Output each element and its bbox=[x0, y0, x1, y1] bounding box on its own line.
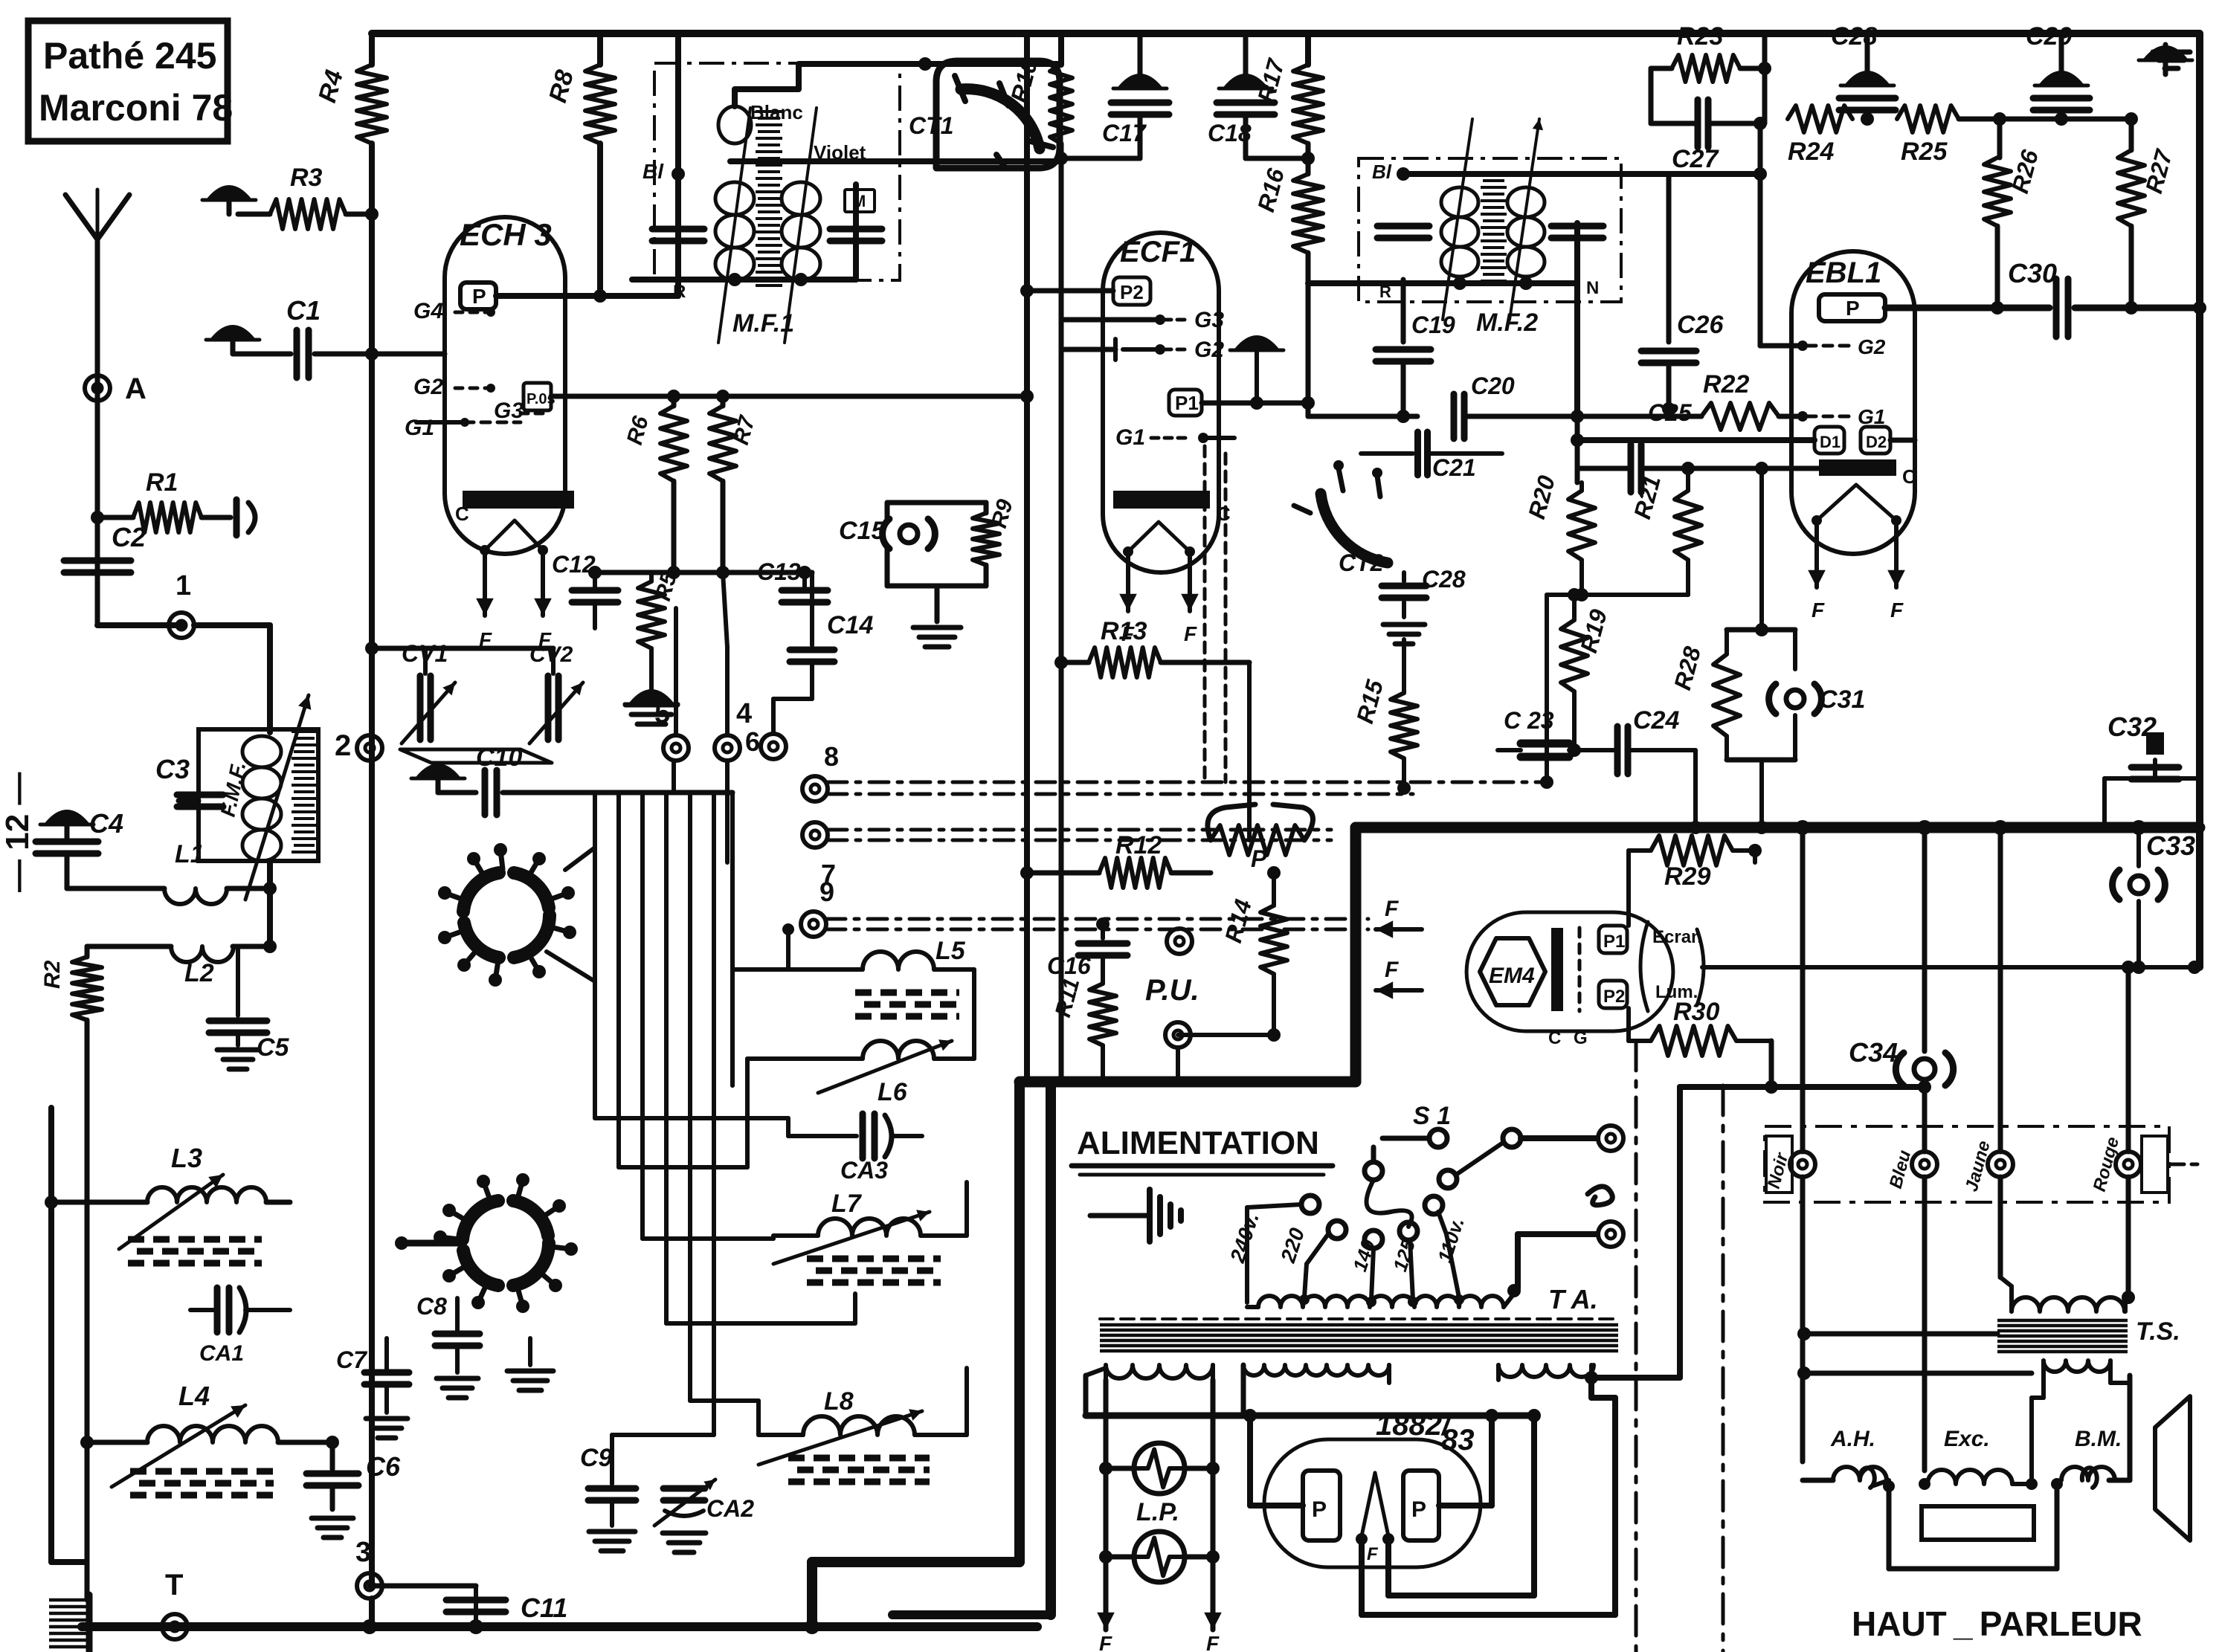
resistor R9 bbox=[973, 513, 999, 565]
Exc magnet bbox=[1922, 1506, 2034, 1540]
trimmer CT1 box bbox=[936, 61, 1060, 168]
wire L3 right bbox=[266, 1200, 290, 1205]
wire feedback vertical bbox=[1762, 33, 1768, 123]
svg-text:F: F bbox=[1099, 1632, 1112, 1652]
svg-text:L6: L6 bbox=[877, 1078, 908, 1106]
tap risers bbox=[1245, 1207, 1249, 1297]
terminal 2 bbox=[357, 735, 382, 761]
capacitor C29 bbox=[2059, 33, 2064, 71]
EM4 hexagon bbox=[1480, 938, 1545, 1005]
capacitor to chassis after R1 bbox=[234, 500, 240, 535]
wire HT row bbox=[1086, 1413, 1534, 1419]
EM4 F arrows bbox=[1376, 927, 1422, 932]
svg-text:F: F bbox=[1206, 1632, 1220, 1652]
resistor R6 bbox=[667, 390, 680, 403]
capacitor+chassis left of R3 bbox=[208, 187, 250, 199]
wire P2 to center bbox=[1027, 288, 1113, 294]
fuse squiggle bbox=[1588, 1187, 1612, 1205]
svg-text:Blanc: Blanc bbox=[750, 101, 803, 123]
resistor R17 bbox=[1305, 33, 1311, 65]
resistor R8 bbox=[597, 33, 603, 65]
capacitor C23 bbox=[1498, 748, 1521, 752]
title box Pathé 245 / Marconi 78 bbox=[28, 21, 228, 141]
svg-text:R25: R25 bbox=[1901, 138, 1948, 166]
resistor R21 bbox=[1686, 468, 1690, 491]
svg-text:C32: C32 bbox=[2107, 712, 2157, 742]
svg-text:C14: C14 bbox=[827, 611, 873, 639]
coil L4 bbox=[147, 1426, 278, 1442]
coil L1 bbox=[67, 886, 164, 891]
svg-text:C27: C27 bbox=[1672, 145, 1719, 173]
svg-text:P: P bbox=[1411, 1497, 1426, 1522]
AF line G1 bbox=[1308, 414, 1417, 419]
capacitor C4 umbrella bbox=[46, 811, 88, 824]
svg-text:C: C bbox=[1548, 1028, 1561, 1048]
svg-text:L8: L8 bbox=[824, 1387, 854, 1416]
resistor R15 bbox=[1402, 639, 1406, 693]
svg-text:C: C bbox=[1217, 503, 1231, 525]
svg-text:C31: C31 bbox=[1819, 685, 1865, 714]
coil L8 bbox=[759, 1433, 803, 1437]
capacitor C14 bbox=[810, 572, 814, 645]
MF1 secondary terminal M bbox=[853, 184, 859, 280]
svg-text:R23: R23 bbox=[1677, 22, 1723, 51]
plate box P1 ECF1 bbox=[1169, 390, 1202, 416]
C32 frame bbox=[2102, 778, 2107, 827]
capacitor C9 bbox=[610, 1435, 614, 1484]
wire Violet line bbox=[730, 158, 1056, 164]
svg-text:HAUT _ PARLEUR: HAUT _ PARLEUR bbox=[1852, 1604, 2142, 1643]
svg-text:C33: C33 bbox=[2146, 830, 2195, 861]
svg-text:G4: G4 bbox=[413, 299, 443, 323]
wire Bleu vertical bbox=[1922, 827, 1928, 1051]
svg-text:P: P bbox=[472, 285, 486, 308]
svg-text:EBL1: EBL1 bbox=[1806, 256, 1881, 289]
M.F.1 shield box bbox=[654, 63, 900, 280]
capacitor C24 bbox=[1574, 748, 1614, 752]
capacitor C12 bbox=[593, 572, 597, 587]
svg-text:Pathé 245: Pathé 245 bbox=[43, 35, 216, 77]
wire bundle verticals bbox=[593, 793, 597, 1118]
svg-text:C1: C1 bbox=[286, 295, 321, 326]
switch S1 bbox=[1429, 1129, 1447, 1147]
wire right bus vertical bbox=[2196, 33, 2203, 967]
L7 core block bbox=[807, 1259, 941, 1282]
T.S. primary bbox=[2012, 1297, 2125, 1311]
svg-text:G1: G1 bbox=[1858, 405, 1885, 428]
wire D2 to edge bbox=[1890, 438, 1915, 443]
capacitor C31 bbox=[1786, 690, 1804, 708]
trimmer CT1 arc bbox=[961, 89, 1040, 149]
wire FMF bottom bbox=[267, 861, 273, 946]
svg-text:F: F bbox=[1890, 598, 1904, 622]
svg-text:P: P bbox=[1312, 1497, 1327, 1522]
capacitor C4 bbox=[36, 839, 98, 845]
wire heavy vertical pair ALIMENTATION bbox=[1014, 1082, 1025, 1562]
svg-text:P.U.: P.U. bbox=[1145, 974, 1199, 1007]
MF2 core bbox=[1481, 174, 1507, 281]
1882 filament bbox=[1362, 1473, 1375, 1536]
terminal A bbox=[85, 375, 110, 401]
wire D1 D2 row bbox=[1577, 437, 1814, 443]
cathode bar ECH3 bbox=[463, 491, 574, 509]
MF1 tuning arrows bbox=[718, 108, 750, 343]
capacitor C6 bbox=[330, 1442, 335, 1469]
resistor R12 bbox=[1027, 871, 1099, 876]
wire MF2 top bbox=[1403, 171, 1760, 177]
1882 P box left bbox=[1303, 1471, 1340, 1540]
wire top HT bus bbox=[372, 30, 2200, 37]
speaker cone bbox=[2155, 1396, 2190, 1540]
capacitor C22 bbox=[1402, 602, 1406, 617]
svg-text:C24: C24 bbox=[1633, 706, 1679, 735]
L4 core block bbox=[130, 1471, 274, 1495]
terminals 5 and 4 bbox=[663, 735, 689, 761]
svg-text:CA1: CA1 bbox=[199, 1341, 244, 1366]
capacitor+chassis left of C1 bbox=[212, 326, 254, 339]
TA primary winding bbox=[1245, 1297, 1249, 1303]
trimmer CA1 bbox=[190, 1308, 216, 1312]
svg-text:L3: L3 bbox=[171, 1143, 202, 1173]
svg-text:C5: C5 bbox=[257, 1033, 290, 1062]
svg-text:C4: C4 bbox=[89, 808, 123, 839]
svg-text:R3: R3 bbox=[290, 164, 323, 192]
coil B.M. bbox=[2061, 1467, 2115, 1480]
resistor R23 bbox=[1651, 66, 1672, 71]
antenna bbox=[95, 239, 100, 590]
grid G3 ECF1 bbox=[1061, 317, 1160, 323]
svg-text:C18: C18 bbox=[1208, 120, 1252, 146]
svg-text:L2: L2 bbox=[184, 959, 214, 987]
svg-text:C16: C16 bbox=[1047, 952, 1091, 979]
TA rect-fil winding bbox=[1498, 1365, 1594, 1377]
heater pentagon EBL1 bbox=[1817, 485, 1896, 520]
TA core dashed top bbox=[1100, 1317, 1618, 1320]
wire terminal1 to FMF bbox=[194, 622, 270, 628]
F.M.F coil petals bbox=[242, 736, 281, 767]
separator dashdot 1 bbox=[1635, 1041, 1638, 1652]
wire x2259 to TA bbox=[1677, 1087, 1683, 1378]
capacitor C13 bbox=[802, 572, 807, 587]
terminal 7 bbox=[802, 822, 828, 848]
M.F.2 shield box bbox=[1359, 158, 1621, 302]
T.S. secondary bbox=[2044, 1361, 2110, 1372]
svg-text:CA3: CA3 bbox=[840, 1157, 888, 1184]
svg-text:T: T bbox=[165, 1569, 183, 1601]
rotary switch S-B feed bbox=[402, 1240, 463, 1247]
cathode bar ECF1 bbox=[1113, 491, 1210, 509]
svg-text:C34: C34 bbox=[1849, 1037, 1898, 1068]
wire lamp vertical left bbox=[1104, 1380, 1109, 1619]
svg-text:5: 5 bbox=[654, 698, 670, 729]
coil L5 bbox=[786, 929, 790, 969]
ground under R5 bbox=[631, 691, 672, 703]
heater pentagon ECF1 bbox=[1128, 522, 1190, 552]
svg-text:T.S.: T.S. bbox=[2136, 1317, 2180, 1346]
resistor R11 bbox=[1089, 984, 1116, 1045]
wire heavy B+ bus y1113 bbox=[1356, 822, 2200, 833]
capacitor C32 bbox=[2153, 760, 2157, 778]
svg-text:Exc.: Exc. bbox=[1944, 1427, 1990, 1451]
wire P1 to right bbox=[1202, 401, 1308, 406]
MF1 secondary petals bbox=[782, 182, 820, 215]
svg-text:EM4: EM4 bbox=[1489, 964, 1535, 988]
svg-text:CT2: CT2 bbox=[1339, 549, 1384, 576]
svg-text:C20: C20 bbox=[1471, 372, 1515, 399]
wire term5 up bbox=[674, 608, 678, 735]
resistor R27 bbox=[2129, 119, 2134, 150]
wire CV feed bbox=[372, 646, 553, 651]
tube EBL1 envelope bbox=[1791, 251, 1915, 554]
svg-text:A.H.: A.H. bbox=[1830, 1427, 1875, 1451]
variable capacitor CV1 bbox=[423, 648, 428, 674]
MF1 primary cap bbox=[652, 226, 704, 233]
svg-text:F: F bbox=[1385, 897, 1399, 921]
svg-text:CV1: CV1 bbox=[402, 640, 448, 667]
svg-text:C9: C9 bbox=[580, 1444, 613, 1472]
S1 wavy to tap bbox=[1367, 1180, 1412, 1227]
svg-text:R29: R29 bbox=[1664, 862, 1710, 891]
terminal 6 bbox=[761, 734, 786, 759]
terminal 9 bbox=[801, 911, 826, 937]
trimmer CT2 arc bbox=[1321, 494, 1388, 563]
svg-text:9: 9 bbox=[819, 877, 834, 907]
resistor R26 bbox=[1997, 119, 2003, 158]
1882 P box right bbox=[1403, 1471, 1439, 1540]
coil L3 bbox=[147, 1187, 266, 1202]
terminal Jaune bbox=[1988, 1152, 2013, 1177]
capacitor C34 bbox=[1914, 1059, 1935, 1080]
wire y770 row bbox=[595, 570, 812, 575]
C15-R9 bottom bbox=[885, 549, 890, 586]
svg-text:P.0s: P.0s bbox=[526, 391, 555, 407]
wire MF2 bottom R bbox=[1308, 280, 1577, 286]
wire R30 drop bbox=[1769, 1041, 1774, 1087]
L4 arrow bbox=[112, 1405, 245, 1487]
wire left vertical x69 bbox=[48, 1108, 54, 1562]
terminal 8 bbox=[802, 776, 828, 801]
wire bottom earth bus bbox=[82, 1622, 1037, 1631]
EM4 P2 box bbox=[1599, 981, 1627, 1008]
speaker connector box bbox=[1765, 1126, 2169, 1202]
wire R25 to R27 bbox=[2000, 117, 2131, 122]
wire left main vertical x500 bbox=[369, 33, 375, 65]
wire L3 feed bbox=[51, 1200, 147, 1205]
heater arrows EBL1 bbox=[1814, 520, 1819, 587]
svg-text:G3: G3 bbox=[1194, 308, 1224, 332]
coil L2 bbox=[171, 946, 234, 962]
resistor R10 bbox=[1058, 33, 1064, 65]
svg-text:C 23: C 23 bbox=[1504, 707, 1554, 734]
rotary switch S-B spokes bbox=[449, 1210, 466, 1220]
grid G1 EBL1 dashes bbox=[1807, 415, 1852, 419]
svg-text:C8: C8 bbox=[416, 1293, 447, 1320]
resistor R5 bbox=[649, 572, 654, 581]
EM4 Ecran arc bbox=[1640, 922, 1648, 1011]
wire R13 right vertical bbox=[1247, 662, 1252, 840]
resistor R3 bbox=[238, 212, 270, 217]
svg-text:G1: G1 bbox=[405, 416, 434, 440]
svg-text:P: P bbox=[1846, 297, 1860, 320]
TA HT winding bbox=[1243, 1365, 1389, 1375]
terminal mains 1 bbox=[1598, 1126, 1623, 1151]
gang frame bbox=[400, 749, 552, 763]
svg-text:8: 8 bbox=[824, 741, 839, 772]
wire step to CT1 bbox=[925, 61, 1060, 67]
svg-text:C10: C10 bbox=[476, 743, 522, 772]
wire column x1427 down bbox=[1059, 662, 1064, 1082]
wire central vertical x1381 bbox=[1024, 33, 1030, 1082]
capacitor C5 bbox=[236, 946, 240, 1016]
svg-text:D2: D2 bbox=[1866, 433, 1887, 451]
wire L-coils right returns bbox=[972, 969, 976, 1059]
wire PU row bbox=[1178, 1033, 1274, 1037]
capacitor C20 bbox=[1451, 394, 1458, 439]
resistor R1 bbox=[97, 515, 133, 520]
svg-text:T A.: T A. bbox=[1548, 1284, 1598, 1314]
lamp LP2 bbox=[1106, 1555, 1134, 1560]
L5 core block bbox=[855, 993, 959, 1016]
shielded grid lead bbox=[1203, 446, 1207, 785]
wire ECH3 plate to R8 bbox=[496, 293, 600, 299]
svg-text:C2: C2 bbox=[112, 522, 146, 552]
svg-text:G2: G2 bbox=[413, 375, 443, 399]
TA heater winding bbox=[1106, 1365, 1213, 1378]
svg-text:3: 3 bbox=[355, 1537, 371, 1568]
MF1 core bbox=[756, 112, 782, 285]
F.M.F core hatch bbox=[292, 732, 317, 852]
wire L2 row bbox=[87, 944, 171, 949]
svg-text:P1: P1 bbox=[1603, 932, 1625, 952]
resistor R30 bbox=[1626, 1008, 1631, 1041]
wire P.Os line bbox=[551, 394, 1027, 399]
MF2 primary cap bbox=[1377, 223, 1429, 230]
variable capacitor CV2 bbox=[551, 648, 555, 674]
coil A.H. bbox=[1803, 1478, 1833, 1483]
rotary switch S-A spokes bbox=[445, 893, 463, 900]
svg-text:L.P.: L.P. bbox=[1136, 1498, 1179, 1526]
resistor R22 bbox=[1701, 403, 1779, 430]
svg-text:C11: C11 bbox=[521, 1593, 567, 1623]
wire R24 R25 row bbox=[1765, 118, 1788, 120]
svg-text:C26: C26 bbox=[1677, 311, 1724, 339]
svg-text:83: 83 bbox=[1441, 1424, 1475, 1456]
capacitor C33 bbox=[2130, 876, 2148, 894]
svg-text:P1: P1 bbox=[1175, 392, 1199, 414]
svg-text:Ecran: Ecran bbox=[1652, 927, 1702, 947]
svg-text:P2: P2 bbox=[1603, 987, 1625, 1007]
svg-text:C17: C17 bbox=[1102, 120, 1147, 146]
svg-text:C15: C15 bbox=[839, 517, 886, 545]
L6 arrow bbox=[818, 1041, 952, 1093]
svg-text:L7: L7 bbox=[831, 1190, 863, 1218]
svg-text:G3: G3 bbox=[494, 399, 524, 423]
terminal mains 2 bbox=[1598, 1222, 1623, 1247]
MF2 arrows bbox=[1443, 119, 1472, 320]
ground right of switch2 bbox=[528, 1338, 532, 1365]
svg-text:C25: C25 bbox=[1648, 399, 1693, 426]
terminal Rouge bbox=[2116, 1152, 2141, 1177]
chassis above P1 bbox=[1236, 337, 1278, 349]
svg-text:D1: D1 bbox=[1820, 433, 1841, 451]
TA core bbox=[1100, 1325, 1618, 1351]
capacitor C3 bbox=[178, 798, 199, 804]
plate box P ECH3 bbox=[460, 283, 496, 309]
rotary switch S-A feed bbox=[565, 848, 595, 870]
terminal Bleu bbox=[1912, 1152, 1937, 1177]
terminal T bbox=[162, 1614, 187, 1639]
capacitor C27 bbox=[1651, 121, 1698, 126]
tube ECF1 envelope bbox=[1103, 233, 1219, 572]
capacitor C8 bbox=[455, 1298, 460, 1331]
wire C20 to R22 bbox=[1577, 414, 1701, 419]
wire bundle jogs bbox=[595, 1116, 788, 1120]
wire G2 EBL1 row bbox=[1760, 343, 1800, 349]
svg-text:2: 2 bbox=[335, 729, 351, 762]
svg-text:L1: L1 bbox=[175, 840, 205, 868]
heater pentagon ECH3 bbox=[485, 520, 543, 550]
chassis top right bbox=[2145, 47, 2186, 59]
MF2 primary petals bbox=[1441, 187, 1478, 217]
L8 arrow bbox=[759, 1411, 922, 1465]
wire R23 left drop bbox=[1649, 68, 1654, 123]
terminal Noir bbox=[1790, 1152, 1815, 1177]
L3 arrow bbox=[119, 1175, 223, 1249]
T.S. secondary leads bbox=[2032, 1396, 2044, 1400]
svg-text:C3: C3 bbox=[155, 754, 190, 784]
cathode bar EBL1 bbox=[1819, 459, 1896, 476]
svg-text:F: F bbox=[1184, 622, 1197, 645]
EM4 grid dashed bbox=[1578, 928, 1582, 1011]
svg-text:L5: L5 bbox=[936, 937, 966, 965]
svg-text:1: 1 bbox=[175, 570, 191, 601]
wire C14 to terminal 6 bbox=[773, 697, 812, 701]
capacitor C15 bbox=[900, 525, 918, 543]
svg-text:M.F.1: M.F.1 bbox=[732, 309, 794, 338]
svg-text:R13: R13 bbox=[1101, 617, 1147, 645]
capacitor C7 bbox=[384, 1338, 389, 1369]
wire L4 feed bbox=[87, 1440, 147, 1445]
1882 filament leads bbox=[1385, 1539, 1391, 1595]
wire lamp vertical right bbox=[1211, 1380, 1216, 1619]
potentiometer P bbox=[1211, 825, 1304, 855]
plate box P EBL1 bbox=[1819, 294, 1885, 321]
box P.Os bbox=[524, 383, 551, 410]
MF1 primary petals bbox=[715, 182, 754, 215]
chassis left of C10 bbox=[417, 765, 459, 778]
F.M.F tuning arrow bbox=[245, 695, 309, 900]
svg-text:F: F bbox=[1385, 958, 1399, 982]
wire Lum line bbox=[1702, 965, 2194, 969]
svg-text:M: M bbox=[852, 192, 866, 210]
capacitor C1 bbox=[294, 330, 300, 378]
svg-text:A: A bbox=[125, 372, 146, 405]
svg-text:4: 4 bbox=[736, 698, 752, 729]
svg-text:ECH 3: ECH 3 bbox=[460, 217, 552, 252]
capacitor C26 bbox=[1666, 174, 1672, 342]
MF2 N terminal bbox=[1574, 223, 1580, 416]
heater arrows ECH3 bbox=[483, 550, 487, 616]
resistor R2 bbox=[85, 946, 90, 957]
capacitor C17 bbox=[1138, 33, 1143, 74]
dashed bus 9 bbox=[826, 917, 1368, 921]
wire B.M. right vertical bbox=[2128, 1375, 2133, 1480]
svg-text:R: R bbox=[673, 282, 686, 302]
svg-text:C21: C21 bbox=[1432, 454, 1476, 481]
wire Rouge vertical bbox=[2126, 967, 2131, 1152]
svg-text:ALIMENTATION: ALIMENTATION bbox=[1077, 1125, 1319, 1161]
vertical D-line x2121 bbox=[1575, 416, 1580, 483]
